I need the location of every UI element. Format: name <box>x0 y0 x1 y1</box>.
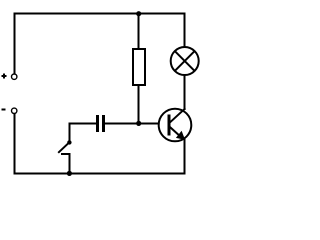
switch S1 lever <box>58 143 68 153</box>
transistor Q1 base bar <box>167 115 170 136</box>
wire: resistor bottom to base junction <box>138 85 140 123</box>
switch S1 bottom contact and wire to bottom rail <box>62 154 70 174</box>
battery minus label <box>1 109 5 111</box>
transistor Q1 emitter stroke <box>170 127 182 138</box>
wire: right vertical from top rail down to lamp <box>184 14 186 47</box>
transistor Q1 body <box>159 109 192 142</box>
battery plus label <box>2 73 7 78</box>
lamp L1 cross <box>175 51 195 71</box>
wire: from - terminal down to bottom-left corner <box>13 114 15 173</box>
wire: left vertical from + terminal up to top-left corner <box>13 14 15 74</box>
wire: top horizontal rail <box>14 13 184 15</box>
lamp L1 body <box>171 47 199 75</box>
wire: bottom horizontal rail <box>14 172 184 174</box>
wire: capacitor left plate to switch branch corner <box>70 122 97 124</box>
wire: lamp bottom down to transistor collector <box>184 76 186 110</box>
wire: transistor emitter down to bottom rail <box>184 139 186 174</box>
wire: switch branch vertical down to switch top contact <box>69 123 71 140</box>
junction dot on bottom rail <box>67 171 72 176</box>
capacitor C1 left plate <box>96 115 99 132</box>
terminal + (open circle) <box>12 74 17 79</box>
resistor R1 <box>133 49 145 85</box>
junction dot on top rail <box>136 11 141 16</box>
switch S1 top contact dot <box>67 140 71 144</box>
junction dot at base node <box>136 121 141 126</box>
terminal - (open circle) <box>12 108 17 113</box>
wire: resistor branch from top rail down to resistor <box>138 14 140 49</box>
transistor Q1 collector stroke <box>170 108 186 123</box>
transistor Q1 emitter arrowhead <box>176 131 185 140</box>
wire: base wire from capacitor to transistor <box>105 122 159 124</box>
capacitor C1 right plate <box>102 115 105 132</box>
